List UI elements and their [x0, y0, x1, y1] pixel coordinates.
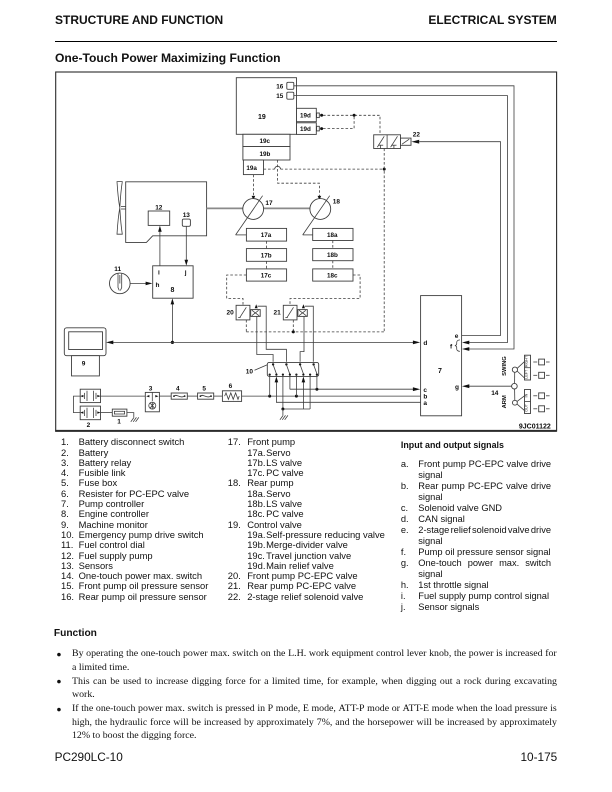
svg-text:17c: 17c [261, 272, 272, 279]
engine controller 8 [153, 266, 193, 298]
svg-text:LEFT: LEFT [525, 369, 529, 379]
wire: solenoid GND to pump controller c [290, 375, 420, 392]
one-touch power max switch (arm knob) [502, 390, 550, 414]
wire: engine controller i to fuel pump 12 [158, 226, 162, 266]
svg-text:22: 22 [413, 131, 421, 138]
rear pump PC-EPC valve 21 [274, 304, 314, 362]
control valve 19 [236, 78, 296, 135]
ground (battery side) [127, 413, 139, 422]
pilot line valve 22 down to PC-EPC valves [383, 149, 385, 332]
svg-text:18c: 18c [327, 272, 338, 279]
servo 18a [313, 228, 353, 240]
wire: dial 11 to engine controller h [130, 282, 152, 286]
svg-text:19a: 19a [246, 165, 257, 172]
pump controller 7 [421, 296, 462, 416]
svg-text:17: 17 [265, 200, 273, 207]
svg-text:17b: 17b [261, 252, 272, 259]
svg-text:14: 14 [491, 390, 499, 397]
servo 17a [246, 228, 286, 241]
svg-text:7: 7 [438, 368, 442, 375]
svg-text:j: j [184, 270, 187, 277]
pilot drain lines of valves 20/21 [246, 320, 384, 334]
pilot line 17c to valve 20 [227, 275, 247, 305]
wire: pump controller a to manifold [275, 377, 421, 403]
main relief valve 19d (upper) [297, 108, 324, 121]
pilot line 19a to right (with hop) [264, 166, 386, 170]
svg-text:h: h [156, 282, 160, 289]
svg-text:4: 4 [176, 385, 180, 392]
wire: valve 22 to pump controller output e [419, 142, 500, 336]
fuel supply pump 12 [148, 204, 170, 225]
front pump oil pressure sensor 15 [276, 92, 294, 100]
svg-text:IN: IN [525, 393, 529, 397]
drive shaft [207, 207, 311, 209]
battery relay 3 [101, 385, 160, 411]
emergency pump drive switch manifold 10 [246, 362, 319, 376]
svg-text:a: a [423, 400, 427, 407]
svg-text:3: 3 [149, 385, 153, 392]
rear pump 18 [303, 196, 341, 235]
self-pressure reducing valve 19a [243, 160, 263, 175]
pilot line 19a to front pump 17 [252, 175, 256, 200]
one-touch power max switch (swing knob) [502, 355, 550, 380]
svg-text:9: 9 [82, 361, 86, 368]
fusible link 4 [159, 385, 187, 399]
rear pump oil pressure sensor 16 [276, 82, 294, 90]
PC valve 18c [313, 261, 353, 281]
wire: sensor 15 to pump controller input f [294, 96, 508, 345]
main relief valve 19d (lower) [297, 123, 324, 135]
svg-text:OUT: OUT [525, 403, 529, 412]
svg-text:16: 16 [276, 83, 284, 90]
battery disconnect switch 1 [101, 409, 127, 426]
cooling fan [117, 182, 126, 235]
machine monitor 9 [64, 328, 106, 376]
svg-text:2: 2 [87, 422, 91, 429]
svg-text:18: 18 [333, 199, 341, 206]
engine [126, 182, 207, 243]
svg-text:19: 19 [258, 114, 266, 121]
wire: sensor 16 to pump controller input f [294, 86, 514, 351]
wire: one-touch switch 14 to pump controller g [462, 384, 512, 397]
wire: CAN bus monitor 9 to pump controller d [106, 341, 420, 345]
fuse box 5 [187, 385, 213, 399]
svg-text:19d: 19d [300, 113, 311, 120]
svg-text:20: 20 [227, 310, 235, 317]
front pump 17 [236, 196, 273, 235]
pilot line 19b to rear pump 18 [278, 160, 322, 200]
svg-text:18a: 18a [327, 232, 338, 239]
svg-text:10: 10 [246, 369, 254, 376]
svg-text:1: 1 [117, 419, 121, 426]
wire: sensors 13 to engine controller j [185, 226, 189, 265]
pilot line 19d to valve 22 [323, 114, 380, 135]
pilot line 18c to valve 21 [290, 275, 360, 305]
wire: CAN line up into engine controller 8 [171, 298, 175, 344]
svg-text:g: g [455, 384, 459, 391]
svg-text:ARM: ARM [502, 395, 508, 408]
svg-text:11: 11 [114, 266, 121, 273]
wire: power line to pump controller b [242, 375, 421, 398]
travel junction valve 19c [243, 134, 290, 146]
svg-text:19c: 19c [260, 138, 271, 145]
junction node 14 [512, 372, 518, 400]
svg-text:RIGHT: RIGHT [525, 355, 529, 367]
PC valve 17c [246, 261, 286, 281]
battery 2 [74, 389, 101, 429]
LS valve 17b [246, 241, 286, 261]
svg-text:12: 12 [155, 204, 163, 211]
resister 6 [214, 383, 242, 401]
fuel control dial 11 [110, 266, 131, 294]
manifold ground network [280, 375, 310, 420]
svg-text:i: i [158, 270, 160, 277]
figure number [519, 424, 551, 431]
svg-text:13: 13 [183, 212, 191, 219]
svg-text:8: 8 [171, 287, 175, 294]
LS valve 18b [313, 241, 353, 261]
svg-text:21: 21 [274, 310, 282, 317]
svg-text:6: 6 [229, 383, 233, 390]
svg-text:e: e [455, 333, 459, 340]
svg-text:19b: 19b [260, 151, 271, 158]
merge-divider valve 19b [243, 147, 290, 161]
svg-text:9JC01122: 9JC01122 [519, 424, 551, 431]
svg-text:17a: 17a [261, 232, 272, 239]
svg-text:SWING: SWING [502, 356, 508, 376]
svg-text:15: 15 [276, 93, 284, 100]
svg-text:5: 5 [202, 385, 206, 392]
sensors 13 [182, 212, 190, 226]
front pump PC-EPC valve 20 [227, 304, 287, 362]
2-stage relief solenoid valve 22 [374, 131, 421, 148]
svg-text:18b: 18b [327, 252, 338, 259]
svg-text:19d: 19d [300, 126, 311, 133]
diagram frame [55, 72, 557, 431]
svg-text:d: d [423, 340, 427, 347]
